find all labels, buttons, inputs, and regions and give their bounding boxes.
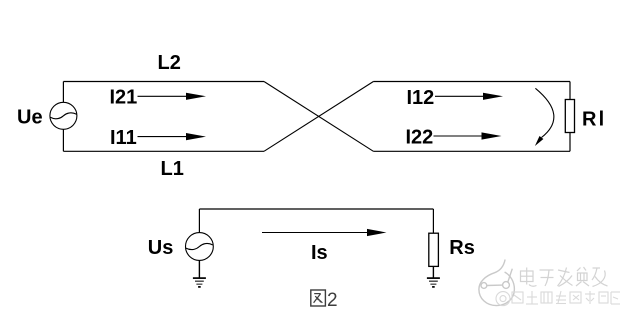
current arrow I11: [138, 133, 207, 140]
wire lower-right vertical below resistor: [432, 266, 434, 278]
resistor Rs: [429, 233, 439, 266]
wire L1 bottom-left horizontal: [63, 150, 264, 152]
svg-text:Is: Is: [311, 242, 328, 264]
wire bottom-right horizontal: [373, 150, 570, 152]
wire crossover segment A: [264, 82, 373, 152]
svg-text:Us: Us: [148, 237, 174, 259]
svg-text:Rs: Rs: [449, 237, 475, 259]
wire crossover segment B: [264, 82, 373, 152]
wire top-right horizontal: [373, 81, 570, 83]
current arrow I22: [434, 132, 502, 139]
current arrow I12: [435, 93, 503, 100]
wire lower-left vertical below source: [198, 260, 200, 278]
svg-text:I12: I12: [407, 87, 435, 109]
svg-text:I11: I11: [110, 127, 137, 149]
wire lower circuit top horizontal: [199, 208, 433, 210]
svg-text:Ue: Ue: [17, 107, 43, 129]
AC source Us symbol: [186, 233, 214, 261]
wire lower-right vertical above resistor: [432, 209, 434, 233]
resistor Rl: [565, 100, 574, 133]
watermark text 电子发烧友: [521, 267, 608, 287]
caption 图2 (figure 2): [311, 290, 326, 306]
wire right vertical to load: [569, 82, 571, 152]
ground under Us: [193, 278, 206, 287]
current arrow I21: [138, 93, 207, 100]
loop current curved arrow: [535, 88, 554, 146]
wire lower-left vertical above source: [198, 209, 200, 233]
svg-text:I22: I22: [406, 127, 434, 149]
AC source Ue symbol: [50, 102, 77, 129]
watermark text @稀土掘金技术社区: [496, 291, 620, 306]
wire L2 top-left horizontal: [63, 81, 264, 83]
watermark logo icon: [479, 260, 515, 306]
svg-text:Rl: Rl: [582, 109, 606, 131]
svg-text:L2: L2: [158, 52, 181, 74]
svg-text:L1: L1: [161, 158, 184, 180]
svg-text:2: 2: [327, 290, 338, 311]
ground under Rs: [427, 278, 440, 287]
wire left vertical lower segment: [62, 129, 64, 151]
wire left vertical upper segment: [62, 82, 64, 103]
svg-text:I21: I21: [110, 87, 138, 109]
current arrow Is: [262, 229, 387, 236]
